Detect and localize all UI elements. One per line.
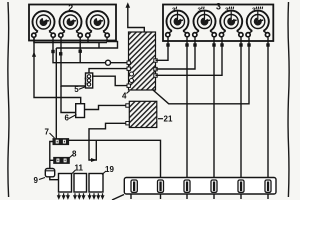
gauge 2c [86,11,110,37]
wire box4 right y61 to gauge3a left [156,38,169,61]
label 21 [158,115,173,124]
ticks below box2 [74,193,85,198]
wire stub to comp8 [50,159,54,161]
label 6 [65,114,77,123]
label 11 [72,164,84,175]
gauge 2b [59,11,83,37]
wire arrow up top [126,2,145,32]
wire comp9 bottom to box11 [50,177,59,180]
wire comp7 to elem2 (y140) [69,140,161,181]
wire comp7 left down to comp8 and comp9 [50,142,53,169]
flow arrow on wire [91,158,97,162]
component 7 [53,138,70,145]
fuse element 2 [158,180,164,192]
wire comp6 right to box21 upper terminal [85,105,126,109]
fuse element 5 [238,180,244,192]
component 5 [85,73,93,88]
pad on wire g2L [59,52,62,55]
svg-text:7: 7 [45,128,50,137]
wire box4 right y68.5 to gauge3b left [156,38,196,70]
pad on wire g1R [51,50,54,53]
box 21 (hatched box) [129,101,157,127]
wire loop g3R [56,38,117,48]
wire bundle A below box 2 [34,38,107,43]
wire connector [98,43,100,49]
fuse element 6 [265,180,271,192]
stubs below bottom box [131,194,268,199]
gauge 2a [32,11,56,37]
svg-text:8: 8 [72,150,77,159]
wire g1L long left [34,38,81,104]
label 8 [69,150,78,159]
box 19 group box3 [89,174,103,193]
long wire gauge3b right to elem4 [213,38,215,182]
ticks below box3 [89,193,104,198]
wire box4 bottom diagonal to gauge3d left [153,38,249,104]
wire box21 lower terminal path [89,123,126,160]
svg-text:5: 5 [74,85,79,94]
wire g2L to comp6 left [61,98,76,113]
long wire gauge3d right to elem6 [267,38,269,182]
fuse element 3 [184,180,190,192]
wire comp5 right to box4 [93,76,128,85]
component 9 [45,169,54,177]
gauge 3c [219,11,243,37]
right border rail [288,2,289,197]
box 3 (right gauge box) [163,5,273,42]
wire comp5 top to box4 [89,69,127,74]
box 21 terminals [126,104,129,125]
diagonal leader bottom-left of bottom box [112,195,124,201]
gauge 3d [246,11,270,37]
svg-text:9: 9 [34,176,39,185]
label 3'' [198,7,205,14]
ticks below box1 [58,193,69,198]
component 8 [53,157,70,164]
label 7 [45,128,55,139]
label 3''' [225,7,234,14]
wire box4 right y76 to gauge3c left [156,38,223,76]
label 9 [34,176,46,185]
svg-text:21: 21 [164,115,173,124]
box 4 (hatched relay box) [127,32,157,90]
label 3'''' [252,7,263,14]
left border rail [8,2,9,197]
wire g3L stub [87,38,89,44]
box 11 group box1 [59,174,72,193]
bottom connector box [124,178,276,195]
long wire gauge3a right to elem3 [186,38,188,182]
pads below box 3 [166,43,269,46]
svg-text:6: 6 [65,114,70,123]
wire g2R down [79,38,81,63]
component 6 [76,104,85,118]
label 3' [172,7,177,14]
fuse element 4 [211,180,217,192]
flow arrow on wire g1L [32,52,36,57]
label 4 [122,91,130,101]
fuse element 1 [131,180,137,192]
svg-text:19: 19 [105,165,114,174]
pad on wire g2R [79,50,82,53]
svg-text:11: 11 [75,164,84,173]
svg-text:4: 4 [122,92,127,101]
gauge 3b [193,11,217,37]
wire x56 down to comp7 [55,48,57,139]
svg-text:3: 3 [216,2,221,12]
long wire gauge3c right to elem5 [240,38,242,182]
node A (open circle junction) [106,60,111,65]
label 19 [102,165,114,175]
box 11 group box2 [74,174,87,193]
label 5 [74,85,85,94]
gauge 3a [166,11,190,37]
wire g2L down to comp5 [61,38,86,86]
box 2 (left gauge box) [29,5,116,41]
wire g1R to box4 (y62.7) [53,38,127,63]
label leader stems into gauges [178,11,258,21]
